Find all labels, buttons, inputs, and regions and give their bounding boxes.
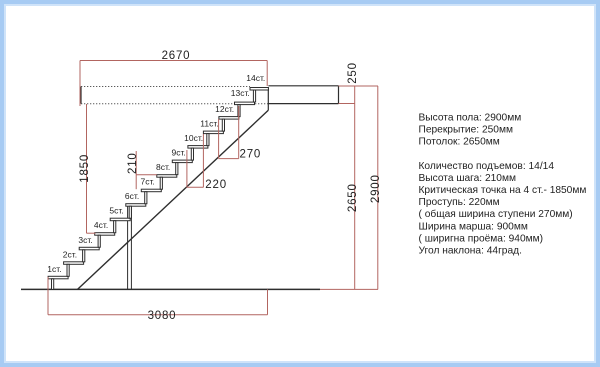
dim 220 right extension [202, 134, 204, 187]
svg-text:12ст.: 12ст. [215, 104, 234, 114]
dim 220 left extension [186, 150, 188, 187]
step 5 tread [110, 218, 130, 221]
step 4 tread [95, 233, 115, 236]
dim 2670 left extension [79, 61, 81, 107]
svg-text:( общая ширина ступени 270мм): ( общая ширина ступени 270мм) [419, 208, 573, 220]
step 14 tread [250, 88, 268, 91]
support post left edge [127, 206, 129, 289]
svg-text:Высота пола: 2900мм: Высота пола: 2900мм [419, 113, 522, 124]
step 13 tread [235, 102, 255, 105]
dim line 210 vertical [135, 151, 137, 189]
step 7 riser [145, 192, 147, 204]
step 12 riser [222, 119, 224, 131]
step 8 riser [160, 177, 162, 189]
dim line 270 [219, 158, 239, 160]
slab right end [338, 86, 340, 104]
svg-text:5ст.: 5ст. [109, 206, 123, 216]
dim 3080 left extension [47, 277, 49, 315]
svg-text:Высота шага: 210мм: Высота шага: 210мм [419, 173, 516, 184]
dim line 2900 vertical [377, 86, 379, 289]
step 13 riser [238, 105, 240, 117]
step 2 tread [64, 262, 84, 265]
step 2 riser [67, 264, 69, 276]
svg-text:1ст.: 1ст. [47, 264, 61, 274]
svg-text:Угол наклона: 44град.: Угол наклона: 44град. [419, 246, 522, 257]
step 11 riser [207, 134, 209, 146]
svg-text:3ст.: 3ст. [78, 235, 92, 245]
svg-text:8ст.: 8ст. [156, 162, 170, 172]
dim line 220 [187, 186, 204, 188]
slab top edge dotted (opening) [81, 86, 250, 88]
dim 2670 right extension [266, 61, 268, 87]
dim line 250/2650 vertical [354, 86, 356, 289]
step 3 tread [79, 247, 99, 250]
step 14 riser [253, 90, 255, 102]
step 1 tread [48, 276, 68, 279]
stringer right vertical edge [267, 88, 269, 111]
svg-text:3080: 3080 [148, 310, 177, 322]
step 1 riser [52, 279, 54, 290]
step 11 tread [203, 131, 223, 134]
svg-text:250: 250 [347, 62, 359, 84]
dim line 3080 [48, 314, 268, 316]
svg-text:Перекрытие: 250мм: Перекрытие: 250мм [419, 125, 513, 136]
support post right edge [130, 206, 132, 289]
svg-text:1850: 1850 [79, 154, 91, 183]
svg-text:Критическая точка на 4 ст.- 18: Критическая точка на 4 ст.- 1850мм [419, 185, 587, 196]
svg-text:6ст.: 6ст. [125, 191, 139, 201]
dim line 1850 vertical [86, 104, 88, 233]
upper floor extension red [339, 85, 379, 87]
ground floor line [21, 288, 320, 290]
upper floor line solid [268, 85, 338, 87]
step 4 riser [98, 235, 100, 247]
slab left end [80, 87, 82, 104]
svg-text:2670: 2670 [162, 50, 191, 62]
svg-text:14ст.: 14ст. [246, 73, 265, 83]
svg-text:( ширигна проёма: 940мм): ( ширигна проёма: 940мм) [419, 233, 544, 244]
step 8 tread [157, 175, 177, 178]
svg-text:Ширина марша: 900мм: Ширина марша: 900мм [419, 221, 528, 232]
slab bottom edge solid [268, 103, 338, 105]
dim 1850 foot [87, 232, 96, 234]
svg-text:270: 270 [240, 148, 262, 160]
slab bottom edge dotted (opening) [81, 103, 268, 105]
dim line 2670 [80, 60, 267, 62]
dim 3080 right extension [267, 289, 269, 314]
step 3 riser [83, 250, 85, 262]
svg-text:2650: 2650 [347, 183, 359, 212]
floor extension red [320, 288, 378, 290]
stair stringer diagonal [78, 110, 269, 289]
svg-text:2900: 2900 [370, 174, 382, 203]
dim 210 extension [136, 174, 157, 176]
svg-text:7ст.: 7ст. [141, 177, 155, 187]
svg-text:11ст.: 11ст. [200, 119, 218, 129]
svg-text:Потолок: 2650мм: Потолок: 2650мм [419, 137, 500, 148]
step 6 tread [126, 204, 146, 207]
svg-text:2ст.: 2ст. [63, 249, 77, 259]
svg-text:9ст.: 9ст. [172, 148, 186, 158]
step 5 riser [114, 221, 116, 233]
step 10 tread [188, 146, 208, 149]
step 7 tread [141, 189, 161, 192]
ceiling extension red [339, 103, 356, 105]
svg-text:220: 220 [205, 179, 227, 191]
dim 270 right extension [238, 106, 240, 159]
svg-text:10ст.: 10ст. [184, 133, 203, 143]
step 6 riser [129, 206, 131, 218]
svg-text:4ст.: 4ст. [94, 220, 108, 230]
svg-text:13ст.: 13ст. [231, 88, 250, 98]
dim 270 left extension [218, 119, 220, 159]
svg-text:Проступь: 220мм: Проступь: 220мм [419, 197, 500, 208]
svg-text:210: 210 [127, 152, 139, 174]
svg-text:Количество подъемов: 14/14: Количество подъемов: 14/14 [419, 161, 555, 172]
step 10 riser [191, 148, 193, 160]
step 9 tread [172, 160, 192, 163]
step 9 riser [176, 163, 178, 175]
step 12 tread [219, 117, 239, 120]
